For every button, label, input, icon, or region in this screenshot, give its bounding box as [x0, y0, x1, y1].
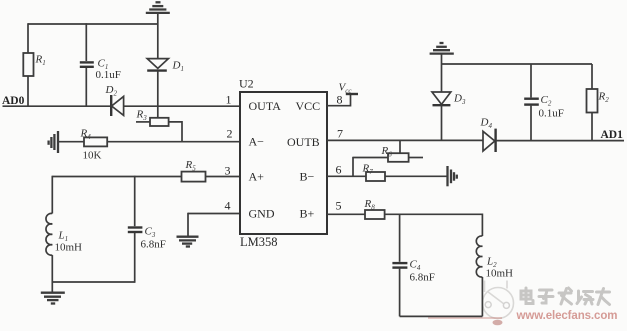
svg-text:www.elecfans.com: www.elecfans.com	[516, 310, 618, 322]
svg-text:2: 2	[227, 127, 233, 141]
svg-text:C3: C3	[145, 226, 156, 240]
resistor R7	[362, 163, 386, 182]
wire bottom-right horizontal	[400, 315, 483, 317]
wire R1 top lead	[27, 23, 29, 53]
svg-text:D2: D2	[105, 84, 118, 98]
svg-text:A+: A+	[249, 170, 265, 184]
resistor R5	[182, 159, 206, 182]
wire pin 4	[188, 213, 240, 215]
svg-text:GND: GND	[249, 207, 275, 221]
svg-text:1: 1	[226, 93, 232, 107]
svg-text:10mH: 10mH	[55, 242, 83, 254]
capacitor C1	[80, 23, 121, 106]
wire R1 bottom lead	[27, 76, 29, 106]
op-amp U2 LM358	[239, 77, 327, 250]
wire R7 to ground	[385, 175, 447, 177]
wire R8 to L2 branch	[385, 213, 483, 215]
wire L1 bottom lead	[51, 255, 53, 282]
capacitor C3	[128, 176, 166, 283]
wire top-left rail	[28, 23, 158, 25]
svg-text:R7: R7	[362, 163, 374, 177]
svg-text:A−: A−	[249, 135, 265, 149]
wire D1 to R3	[157, 71, 159, 119]
wire pin 8 stub	[327, 94, 351, 106]
wire AD0 line left	[3, 105, 111, 107]
wire junction down to R6	[399, 140, 401, 153]
wire R3 left stub	[136, 121, 150, 123]
wire D4 to AD1	[496, 140, 624, 142]
diode D1	[147, 59, 184, 73]
svg-text:R5: R5	[185, 159, 197, 173]
svg-text:C4: C4	[410, 259, 421, 273]
diode D3	[432, 92, 466, 106]
wire D3 to OUTB line	[441, 105, 443, 140]
resistor R6	[381, 145, 409, 162]
svg-text:R3: R3	[136, 109, 148, 123]
watermark red underline	[428, 317, 502, 319]
watermark logo circle	[483, 281, 514, 326]
svg-text:AD1: AD1	[601, 129, 624, 141]
inductor L1	[46, 213, 82, 255]
svg-text:D3: D3	[453, 93, 466, 107]
wire R5 to pin 3	[206, 176, 241, 178]
wire R4 to pin 2	[107, 141, 240, 143]
wire pin 5 to R8	[327, 213, 365, 215]
ground (pin 4)	[177, 213, 199, 247]
svg-text:10K: 10K	[83, 150, 102, 162]
svg-text:8: 8	[337, 93, 343, 107]
wire R6 right stub	[409, 157, 423, 159]
svg-text:6.8nF: 6.8nF	[141, 239, 166, 251]
wire ground to rail and D1	[157, 13, 159, 59]
wire bottom-left horizontal	[52, 281, 134, 283]
ground (top-right)	[430, 43, 454, 54]
svg-text:U2: U2	[239, 77, 254, 91]
svg-text:10mH: 10mH	[486, 268, 514, 280]
svg-text:6: 6	[336, 163, 342, 177]
inductor L2	[476, 214, 513, 317]
wire ground to rail	[441, 54, 443, 92]
svg-text:OUTB: OUTB	[287, 135, 320, 149]
svg-text:7: 7	[337, 127, 343, 141]
resistor R1	[23, 53, 33, 76]
svg-text:6.8nF: 6.8nF	[410, 272, 435, 284]
svg-text:AD0: AD0	[2, 95, 25, 107]
svg-text:R8: R8	[364, 198, 376, 212]
wire top-right rail	[442, 63, 593, 65]
svg-text:B−: B−	[300, 170, 315, 184]
capacitor C4	[392, 214, 434, 316]
svg-text:4: 4	[225, 199, 231, 213]
power Vcc	[339, 82, 359, 96]
svg-text:Vcc: Vcc	[339, 82, 353, 96]
wire AD0 line right to pin 1	[124, 105, 240, 107]
ground (left, sideways)	[49, 131, 58, 153]
ground (bottom-left)	[41, 282, 65, 304]
resistor R3	[136, 109, 169, 127]
svg-text:C2: C2	[541, 94, 552, 108]
svg-text:5: 5	[336, 199, 342, 213]
resistor R8	[364, 198, 385, 219]
ground (right, sideways)	[448, 166, 457, 186]
resistor R4	[80, 128, 108, 162]
wire left branch down to L1	[51, 176, 53, 214]
svg-text:R2: R2	[598, 91, 610, 105]
svg-text:0.1uF: 0.1uF	[96, 69, 121, 81]
wire pin 7 / OUTB line	[327, 139, 483, 141]
wire pin 3 line	[52, 176, 181, 178]
svg-text:R6: R6	[381, 145, 393, 159]
svg-text:3: 3	[225, 164, 231, 178]
svg-text:B+: B+	[300, 207, 315, 221]
wire R6 left lead down to pin 6	[353, 157, 388, 177]
diode D2	[105, 84, 124, 116]
ground (top-left)	[146, 2, 170, 13]
svg-text:D1: D1	[172, 60, 184, 74]
svg-text:D4: D4	[480, 117, 493, 131]
watermark text dianzi fashaoyou	[521, 288, 610, 305]
svg-text:0.1uF: 0.1uF	[539, 108, 564, 120]
diode D4	[480, 117, 496, 153]
capacitor C2	[524, 64, 564, 141]
svg-text:R1: R1	[35, 54, 46, 68]
svg-text:LM358: LM358	[240, 235, 278, 249]
wire pin 6 to R7	[327, 175, 366, 177]
resistor R2	[587, 64, 610, 141]
svg-text:VCC: VCC	[296, 99, 321, 113]
wire ground to R4	[58, 141, 84, 143]
svg-text:R4: R4	[80, 128, 92, 142]
svg-text:OUTA: OUTA	[249, 99, 282, 113]
wire R3 right lead down to pin 2 line	[169, 122, 182, 142]
